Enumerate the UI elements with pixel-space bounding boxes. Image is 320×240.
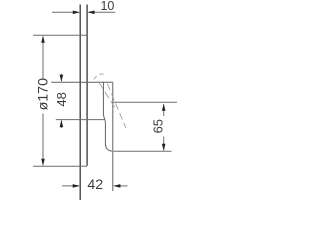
arrow 65 up bbox=[162, 104, 166, 111]
dia170 top extension bbox=[33, 34, 87, 36]
arrow 48 down-to-line bbox=[60, 75, 64, 82]
wire wall rear line bbox=[79, 5, 81, 201]
dia170 dim line top bbox=[42, 36, 44, 78]
dim 48 bottom extension bbox=[56, 119, 105, 121]
dim 42 left segment bbox=[62, 185, 79, 187]
svg-text:48: 48 bbox=[54, 92, 69, 106]
dim 10 left segment bbox=[52, 11, 79, 13]
arrow 10 right bbox=[88, 11, 95, 15]
arrow 42 left bbox=[73, 184, 80, 188]
dim 42 right segment bbox=[114, 185, 128, 187]
lever profile bbox=[103, 82, 112, 151]
arrowheads bbox=[41, 11, 165, 188]
svg-text:42: 42 bbox=[87, 177, 103, 193]
dim 48 line bottom bbox=[60, 120, 62, 128]
svg-text:ø170: ø170 bbox=[36, 78, 52, 110]
dim 65 bottom extension bbox=[113, 150, 171, 152]
dashed lever edge front bbox=[107, 84, 125, 128]
wire wall front line bbox=[86, 5, 88, 166]
dim 65 top extension bbox=[113, 101, 177, 103]
dashed lever edge rear bbox=[99, 82, 115, 107]
arrow 48 up-to-line bbox=[60, 120, 64, 127]
arrow 42 right bbox=[113, 184, 120, 188]
arrow 10 left bbox=[73, 11, 80, 15]
dim 65 line bottom bbox=[163, 137, 165, 151]
svg-text:10: 10 bbox=[100, 0, 114, 13]
arrow 65 down bbox=[162, 144, 166, 151]
dia170 bottom extension bbox=[33, 165, 87, 167]
dashed swing arc bbox=[94, 74, 106, 79]
body front face / 42 extension bbox=[112, 82, 114, 191]
dim 65 line top bbox=[163, 104, 165, 116]
arrow dia170 down bbox=[41, 159, 45, 166]
svg-text:65: 65 bbox=[151, 119, 166, 133]
dim 10 right segment bbox=[89, 11, 116, 13]
dia170 dim line bottom bbox=[42, 114, 44, 166]
dim 48 line top bbox=[60, 74, 62, 82]
arrow dia170 up bbox=[41, 36, 45, 43]
body top edge with 48 extension bbox=[51, 81, 113, 83]
